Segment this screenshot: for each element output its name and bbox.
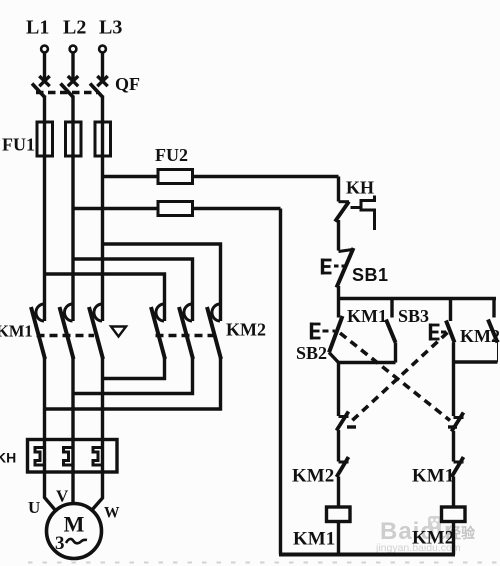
- wire SB3 down: [452, 343, 455, 417]
- control bus top: [339, 297, 497, 300]
- fuse FU1 pole3: [95, 122, 111, 156]
- wire L2 down to KH: [71, 358, 74, 441]
- wire SB2 branch down: [337, 363, 340, 417]
- KH trip hook symbol: [361, 196, 375, 231]
- circuit breaker QF pole 2: [61, 53, 79, 98]
- terminal L2: [70, 46, 77, 53]
- wire SB3/KM2aux junction: [454, 360, 498, 363]
- mechanical interlock triangle: [111, 327, 126, 337]
- wire KM2 pole1 output to L3 line: [103, 358, 165, 379]
- wire FU2 upper from L3: [103, 175, 339, 178]
- svg-text:KM1: KM1: [293, 529, 335, 550]
- interlock dashed SB3 to left NC: [350, 333, 448, 424]
- svg-text:U: U: [28, 498, 40, 517]
- svg-text:KM1: KM1: [347, 306, 387, 326]
- KM1 NC interlock contact: [452, 457, 464, 507]
- KM2 aux NO holding contact: [488, 299, 498, 363]
- coil KM1: [327, 507, 351, 522]
- svg-text:M: M: [64, 512, 85, 537]
- fuse FU2 lower: [158, 202, 193, 216]
- svg-text:L3: L3: [99, 17, 122, 39]
- SB3 actuator E: [431, 324, 448, 341]
- svg-text:L1: L1: [26, 17, 49, 39]
- pushbutton SB1 (NC stop): [337, 248, 354, 318]
- svg-text:KM1: KM1: [0, 322, 33, 341]
- svg-text:SB3: SB3: [398, 306, 429, 326]
- KH pass wires: [45, 441, 103, 471]
- interlock dashed SB2 to right NC: [340, 333, 450, 421]
- svg-text:3: 3: [55, 533, 65, 554]
- KM2 linkage dashed: [156, 334, 219, 337]
- fuse FU1 pole2: [66, 122, 82, 156]
- KH dashed link: [351, 206, 361, 209]
- KM1 linkage dashed: [37, 334, 95, 337]
- wire W to motor: [92, 471, 103, 511]
- wire L3 to KM2 pole3 input: [103, 244, 221, 321]
- wire U to motor: [45, 471, 57, 511]
- pushbutton SB2 (NO start fwd): [329, 316, 343, 363]
- wire coil KM1 to bus: [337, 522, 340, 555]
- wire L2 to KM2 pole2 input: [73, 259, 193, 321]
- wire L3 vertical: [101, 96, 104, 322]
- bottom bus: [279, 553, 455, 557]
- contactor KM1 main contact pole3: [89, 304, 103, 359]
- interlock dash tail left: [347, 425, 356, 428]
- wire coil KM2 to bus: [452, 522, 455, 555]
- svg-text:SB1: SB1: [352, 265, 389, 285]
- KH heater element 3: [93, 448, 103, 466]
- svg-text:QF: QF: [115, 74, 140, 94]
- coil KM2: [442, 507, 466, 522]
- contactor KM2 main contact pole3: [207, 304, 221, 359]
- wire L1 vertical: [43, 96, 46, 322]
- KH heater element 2: [64, 448, 74, 466]
- wire L1 to KM2 pole1 input: [45, 274, 165, 321]
- interlock dash tail right: [448, 425, 457, 428]
- svg-text:FU1: FU1: [2, 135, 35, 155]
- motor M circle: [47, 504, 102, 559]
- watermark Baidu jingyan: [375, 516, 476, 554]
- faint bottom marks: [28, 562, 497, 564]
- svg-text:L2: L2: [63, 17, 86, 39]
- svg-text:KH: KH: [0, 450, 16, 466]
- svg-text:KH: KH: [346, 178, 374, 198]
- KM1 aux NO holding contact: [386, 299, 396, 363]
- fuse FU2 upper: [158, 170, 193, 184]
- wire L3 down to KH: [101, 358, 104, 441]
- KM2 NC interlock contact: [337, 457, 349, 507]
- wire KM2 pole2 output to L2 line: [73, 358, 193, 394]
- circuit breaker QF pole 1: [32, 53, 50, 98]
- circuit breaker QF pole 3: [90, 53, 108, 98]
- SB1 actuator E: [323, 259, 347, 275]
- KH heater element 1: [35, 448, 45, 466]
- contactor KM1 main contact pole1: [31, 304, 45, 359]
- wire V to motor: [71, 471, 74, 504]
- svg-text:SB2: SB2: [296, 343, 327, 363]
- svg-text:KM1: KM1: [412, 466, 454, 487]
- SB2 actuator E: [312, 323, 336, 340]
- SB2 linked NC contact (right branch): [452, 413, 464, 462]
- contactor KM2 main contact pole2: [179, 304, 193, 359]
- wire KM2 pole3 output to L1 line: [45, 358, 221, 409]
- KH NC contact: [335, 177, 349, 251]
- svg-text:KM2: KM2: [226, 320, 266, 340]
- svg-text:W: W: [104, 505, 120, 522]
- svg-text:KM2: KM2: [412, 528, 454, 549]
- svg-text:KM2: KM2: [292, 466, 334, 487]
- fuse FU1 pole1: [37, 122, 53, 156]
- SB3 linked NC contact (left branch): [337, 412, 349, 462]
- contactor KM2 main contact pole1: [151, 304, 165, 359]
- control feeder left vertical from FU2 lower: [279, 209, 282, 555]
- contactor KM1 main contact pole2: [60, 304, 74, 359]
- pushbutton SB3 (NO start rev): [446, 299, 455, 343]
- QF linkage dashed: [36, 91, 97, 94]
- wire SB2/KM1aux junction: [339, 361, 396, 364]
- wire L1 down to KH: [43, 358, 46, 441]
- svg-text:FU2: FU2: [155, 145, 188, 165]
- thermal relay KH box: [28, 440, 118, 473]
- wire FU2 lower from L2: [73, 207, 281, 210]
- wire L2 vertical: [71, 96, 74, 322]
- terminal L1: [41, 46, 48, 53]
- terminal L3: [99, 46, 106, 53]
